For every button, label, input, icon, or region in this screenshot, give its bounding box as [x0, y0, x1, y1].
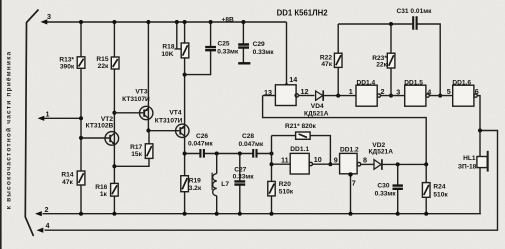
bracket to RF part of receiver — [25, 10, 38, 237]
svg-text:3.2к: 3.2к — [189, 185, 202, 192]
svg-text:R24: R24 — [433, 183, 445, 190]
inverter DD1.1 — [290, 153, 312, 174]
svg-text:C31 0.01мк: C31 0.01мк — [397, 8, 433, 15]
junction dot C27 bottom — [238, 212, 242, 216]
junction dot R23 bottom — [389, 94, 393, 98]
wire top RC line — [338, 24, 440, 96]
junction dots R13 column — [79, 20, 83, 24]
svg-text:DD1.5: DD1.5 — [404, 79, 423, 86]
wire line 4 with right-side return loop — [45, 131, 498, 231]
wire VT3 base — [114, 112, 143, 114]
svg-text:C30: C30 — [377, 183, 389, 190]
wire pin11 input — [272, 163, 291, 165]
wire VD4 to DD1.4 — [323, 95, 356, 97]
arrow line 1 — [38, 116, 45, 121]
arrow line 2 — [35, 211, 42, 216]
svg-text:КТ3107И: КТ3107И — [122, 96, 150, 103]
inverter DD1.6 — [453, 85, 478, 106]
svg-text:0.047мк: 0.047мк — [188, 141, 213, 148]
junction dots top RC line — [389, 22, 393, 26]
capacitor C28 — [253, 149, 256, 158]
capacitor C30 — [393, 164, 403, 213]
wire R15/VT2 column — [113, 22, 115, 214]
resistor R20 — [268, 181, 275, 196]
diode VD4 — [316, 90, 324, 101]
svg-text:DD1.2: DD1.2 — [340, 147, 359, 154]
wire +8V top rail (line 3) — [46, 21, 287, 23]
resistor R16 — [111, 183, 119, 196]
arrow line 3 — [41, 19, 48, 24]
svg-text:R21* 820к: R21* 820к — [285, 123, 316, 130]
wire line 1 — [44, 117, 82, 119]
capacitor C25 — [185, 22, 216, 75]
sound emitter HL1 — [477, 131, 488, 214]
resistor R13 — [77, 57, 85, 69]
resistor R21 — [272, 132, 331, 164]
wire VT2 base — [81, 137, 110, 139]
svg-text:C29: C29 — [253, 41, 265, 48]
wire VT4 collector line — [185, 153, 272, 155]
resistor R19 — [181, 176, 189, 192]
svg-text:VD4: VD4 — [311, 103, 324, 110]
junction dot L7 bottom — [215, 212, 219, 216]
svg-text:КД521А: КД521А — [369, 148, 394, 155]
capacitor C27 — [234, 154, 245, 214]
svg-text:DD1.1: DD1.1 — [290, 146, 309, 153]
svg-text:DD1.6: DD1.6 — [452, 79, 471, 86]
svg-text:R16: R16 — [95, 184, 107, 191]
inverter DD1.5 — [405, 85, 430, 106]
wire pin12 to VD4 — [299, 95, 315, 97]
resistor R14 — [77, 171, 85, 185]
junction dots R18/VT4 column — [183, 20, 187, 24]
svg-text:14: 14 — [289, 75, 297, 84]
transistor VT2 — [105, 132, 119, 146]
svg-text:3: 3 — [396, 87, 400, 96]
svg-text:10: 10 — [314, 155, 322, 164]
svg-text:47к: 47к — [321, 61, 332, 68]
capacitor C31 — [413, 16, 416, 30]
wire pin13 input — [263, 95, 276, 97]
svg-text:R14: R14 — [61, 171, 73, 178]
svg-text:VT4: VT4 — [169, 109, 181, 116]
junction dots collector line — [215, 152, 219, 156]
svg-text:к высокочастотной части приёмн: к высокочастотной части приёмника — [5, 51, 13, 210]
transistor VT3 — [140, 106, 153, 119]
wire DD1.3 pin14 feed — [286, 22, 288, 85]
svg-text:R17: R17 — [130, 144, 142, 151]
arrow line 4 — [37, 228, 44, 233]
capacitor C29 — [238, 22, 250, 63]
wire R18 label leader — [175, 22, 181, 49]
svg-text:47к: 47к — [62, 179, 73, 186]
junction dot pin14 — [284, 83, 288, 87]
wire R18/VT4 column — [184, 22, 186, 214]
junction dot HL1 node — [478, 129, 482, 133]
svg-text:0.33мк: 0.33мк — [233, 174, 255, 181]
resistor R17 — [145, 144, 153, 159]
inductor L7 — [212, 154, 217, 214]
svg-text:2: 2 — [45, 205, 49, 214]
svg-text:0.33мк: 0.33мк — [217, 49, 239, 56]
resistor R18 — [181, 43, 189, 58]
junction dots pin7 — [348, 172, 352, 176]
junction dots node column — [270, 162, 274, 166]
svg-text:C25: C25 — [218, 41, 230, 48]
wire DD1.6 out to HL1 node — [477, 96, 480, 131]
svg-text:4: 4 — [46, 221, 50, 230]
wire VT3 column — [114, 22, 149, 166]
wire DD1.4 out — [381, 95, 405, 97]
junction dot R24 bottom — [424, 212, 428, 216]
svg-text:12: 12 — [301, 87, 309, 96]
svg-text:22к: 22к — [98, 63, 109, 70]
svg-text:7: 7 — [352, 179, 356, 188]
wire pin7 to common — [350, 174, 352, 214]
resistor R23 — [387, 24, 395, 96]
svg-text:6: 6 — [475, 87, 479, 96]
svg-text:C26: C26 — [196, 133, 208, 140]
svg-text:C27: C27 — [234, 166, 246, 173]
wire R20/R21 node column — [271, 136, 273, 214]
svg-text:10K: 10K — [161, 51, 173, 58]
inverter DD1.4 — [356, 85, 381, 106]
resistor R22 — [334, 24, 342, 96]
junction dots output line — [396, 162, 400, 166]
junction dot C25 — [209, 20, 213, 24]
svg-text:390к: 390к — [60, 63, 75, 70]
junction dot R22 bottom — [336, 94, 340, 98]
svg-text:1: 1 — [46, 109, 50, 118]
svg-text:КД521А: КД521А — [304, 111, 329, 118]
svg-text:11: 11 — [281, 156, 289, 165]
wire VT4 base — [148, 130, 179, 132]
inverter DD1.3 — [275, 85, 298, 106]
svg-text:15к: 15к — [131, 151, 142, 158]
resistor R15 — [111, 57, 119, 69]
svg-text:1к: 1к — [100, 191, 108, 198]
svg-text:ЗП-18: ЗП-18 — [458, 163, 477, 170]
transistor VT4 — [176, 124, 189, 137]
wire DD1.2 out — [361, 163, 374, 165]
inverter DD1.2 — [340, 153, 361, 173]
junction dots R15/VT2 column — [112, 20, 116, 24]
resistor R24 — [422, 164, 430, 213]
svg-text:HL1: HL1 — [463, 155, 476, 162]
svg-text:2: 2 — [381, 87, 385, 96]
junction dot C30 bottom — [396, 212, 400, 216]
svg-text:0.33мк: 0.33мк — [253, 49, 275, 56]
svg-text:510к: 510к — [279, 189, 294, 196]
page scan left edge — [0, 0, 2, 249]
junction dot leader — [175, 20, 179, 24]
diode VD2 — [374, 159, 382, 170]
wire feedback pin13 loop — [263, 96, 427, 165]
svg-text:L7: L7 — [221, 181, 229, 188]
svg-text:+8B: +8B — [222, 17, 235, 24]
wire DD1.5 out — [429, 95, 452, 97]
svg-text:R18: R18 — [162, 44, 174, 51]
svg-text:510к: 510к — [433, 192, 448, 199]
junction dots VT3 column — [146, 20, 150, 24]
svg-text:5: 5 — [447, 87, 451, 96]
wire R13 column — [80, 22, 82, 214]
svg-text:DD1.4: DD1.4 — [357, 79, 376, 86]
svg-text:R20: R20 — [279, 181, 291, 188]
svg-text:0.33мк: 0.33мк — [375, 191, 397, 198]
svg-text:8: 8 — [363, 156, 367, 165]
svg-text:22к: 22к — [376, 62, 387, 69]
wire DD1.1 out — [313, 163, 340, 165]
svg-text:R19: R19 — [189, 177, 201, 184]
svg-text:0.047мк: 0.047мк — [239, 141, 264, 148]
svg-text:VT3: VT3 — [135, 89, 147, 96]
svg-text:КТ3107И: КТ3107И — [155, 118, 183, 125]
svg-text:C28: C28 — [242, 133, 254, 140]
svg-text:3: 3 — [47, 12, 51, 21]
svg-text:КТ3102В: КТ3102В — [86, 123, 114, 130]
svg-text:9: 9 — [334, 155, 338, 164]
junction dot C29 — [241, 20, 245, 24]
svg-text:1: 1 — [349, 87, 353, 96]
svg-text:DD1 К561ЛН2: DD1 К561ЛН2 — [277, 9, 329, 18]
capacitor C26 — [200, 149, 204, 158]
wire VD2 output line — [382, 163, 426, 165]
junction dot R21 right — [328, 162, 332, 166]
wire common rail (line 2) — [43, 213, 481, 215]
svg-text:R15: R15 — [96, 56, 108, 63]
